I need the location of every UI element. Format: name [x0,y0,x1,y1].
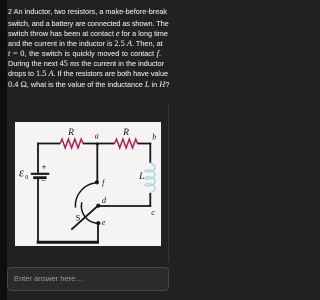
left dark strip [0,0,7,300]
battery short plate [33,176,46,179]
svg-text:R: R [122,128,129,138]
svg-text:a: a [95,132,99,141]
wire top rail left segment [37,143,60,145]
wire right vertical bottom (coil to c) [149,193,151,207]
wire top rail middle segment [83,143,115,145]
contact d dot [96,204,100,208]
svg-text:L: L [138,172,144,182]
contact f dot [95,180,99,184]
wire top rail right segment [137,143,151,145]
wire e down to bottom rail [97,224,99,244]
wire d to c [98,205,151,207]
wire left vertical (battery branch) [37,143,39,173]
svg-text:b: b [152,133,156,142]
resistor R2 [115,139,138,148]
answer input box [7,267,169,291]
scrollbar indicator [168,104,170,262]
problem text [8,7,174,17]
svg-text:ε: ε [19,166,24,180]
switch blade S [71,206,98,230]
wire right vertical top (b down to coil) [149,143,151,164]
switch travel arc large (f to left) [75,183,97,208]
svg-text:R: R [67,128,74,138]
svg-text:e: e [102,218,106,227]
circuit figure [15,122,161,246]
svg-text:c: c [151,208,155,217]
svg-text:+: + [42,163,47,172]
wire middle vertical a to f [96,144,98,182]
svg-text:0: 0 [25,175,28,181]
svg-text:S: S [76,212,81,222]
contact e dot [96,221,100,225]
wire bottom rail [37,241,99,244]
svg-text:−: − [41,176,45,185]
node a junction dot [96,142,99,145]
switch travel arc small (left to e) [81,202,96,223]
battery EMF long plate [31,173,50,175]
resistor R1 [60,139,83,148]
inductor L coil [145,163,155,192]
